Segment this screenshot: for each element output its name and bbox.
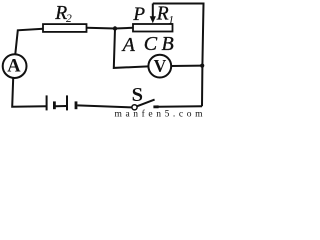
voltmeter U2: [148, 55, 171, 78]
battery BT1 plate short 2: [75, 101, 78, 109]
battery BT1 plate short 1: [53, 101, 56, 109]
wire R2 to junction: [87, 27, 116, 30]
wire switch to bottom-right corner: [158, 105, 202, 108]
resistor R2: [43, 24, 87, 32]
rheostat body R1: [133, 24, 173, 32]
battery BT1 plate long 1: [46, 95, 48, 110]
wire top-right and right edge: [153, 4, 204, 107]
switch S fixed contact: [153, 105, 158, 108]
slider arrow P: [152, 4, 154, 18]
node voltmeter/right-edge junction: [200, 64, 204, 68]
svg-text:B: B: [162, 33, 174, 55]
wire left vertical + top-left segment: [15, 29, 43, 55]
wire junction to rheostat: [115, 27, 133, 30]
battery BT1 plate long 2: [66, 95, 68, 110]
svg-text:A: A: [121, 34, 136, 56]
node junction left of rheostat: [113, 26, 117, 30]
svg-text:1: 1: [168, 15, 174, 27]
svg-text:C: C: [144, 33, 158, 55]
wire between cells: [56, 105, 67, 107]
svg-text:S: S: [132, 84, 143, 106]
wire battery to switch: [77, 105, 132, 107]
svg-text:R: R: [156, 4, 169, 25]
svg-text:A: A: [7, 57, 21, 77]
wire voltmeter to right edge: [171, 65, 202, 67]
svg-text:2: 2: [66, 13, 72, 25]
svg-text:manfen5.com: manfen5.com: [115, 109, 207, 119]
svg-text:V: V: [154, 56, 167, 76]
ammeter U1: [3, 54, 27, 78]
wire ammeter to bottom-left corner to battery: [12, 78, 46, 107]
svg-text:P: P: [132, 4, 145, 25]
switch S lever: [137, 100, 154, 107]
wire junction down to voltmeter: [114, 29, 149, 68]
switch S pivot: [132, 105, 137, 110]
